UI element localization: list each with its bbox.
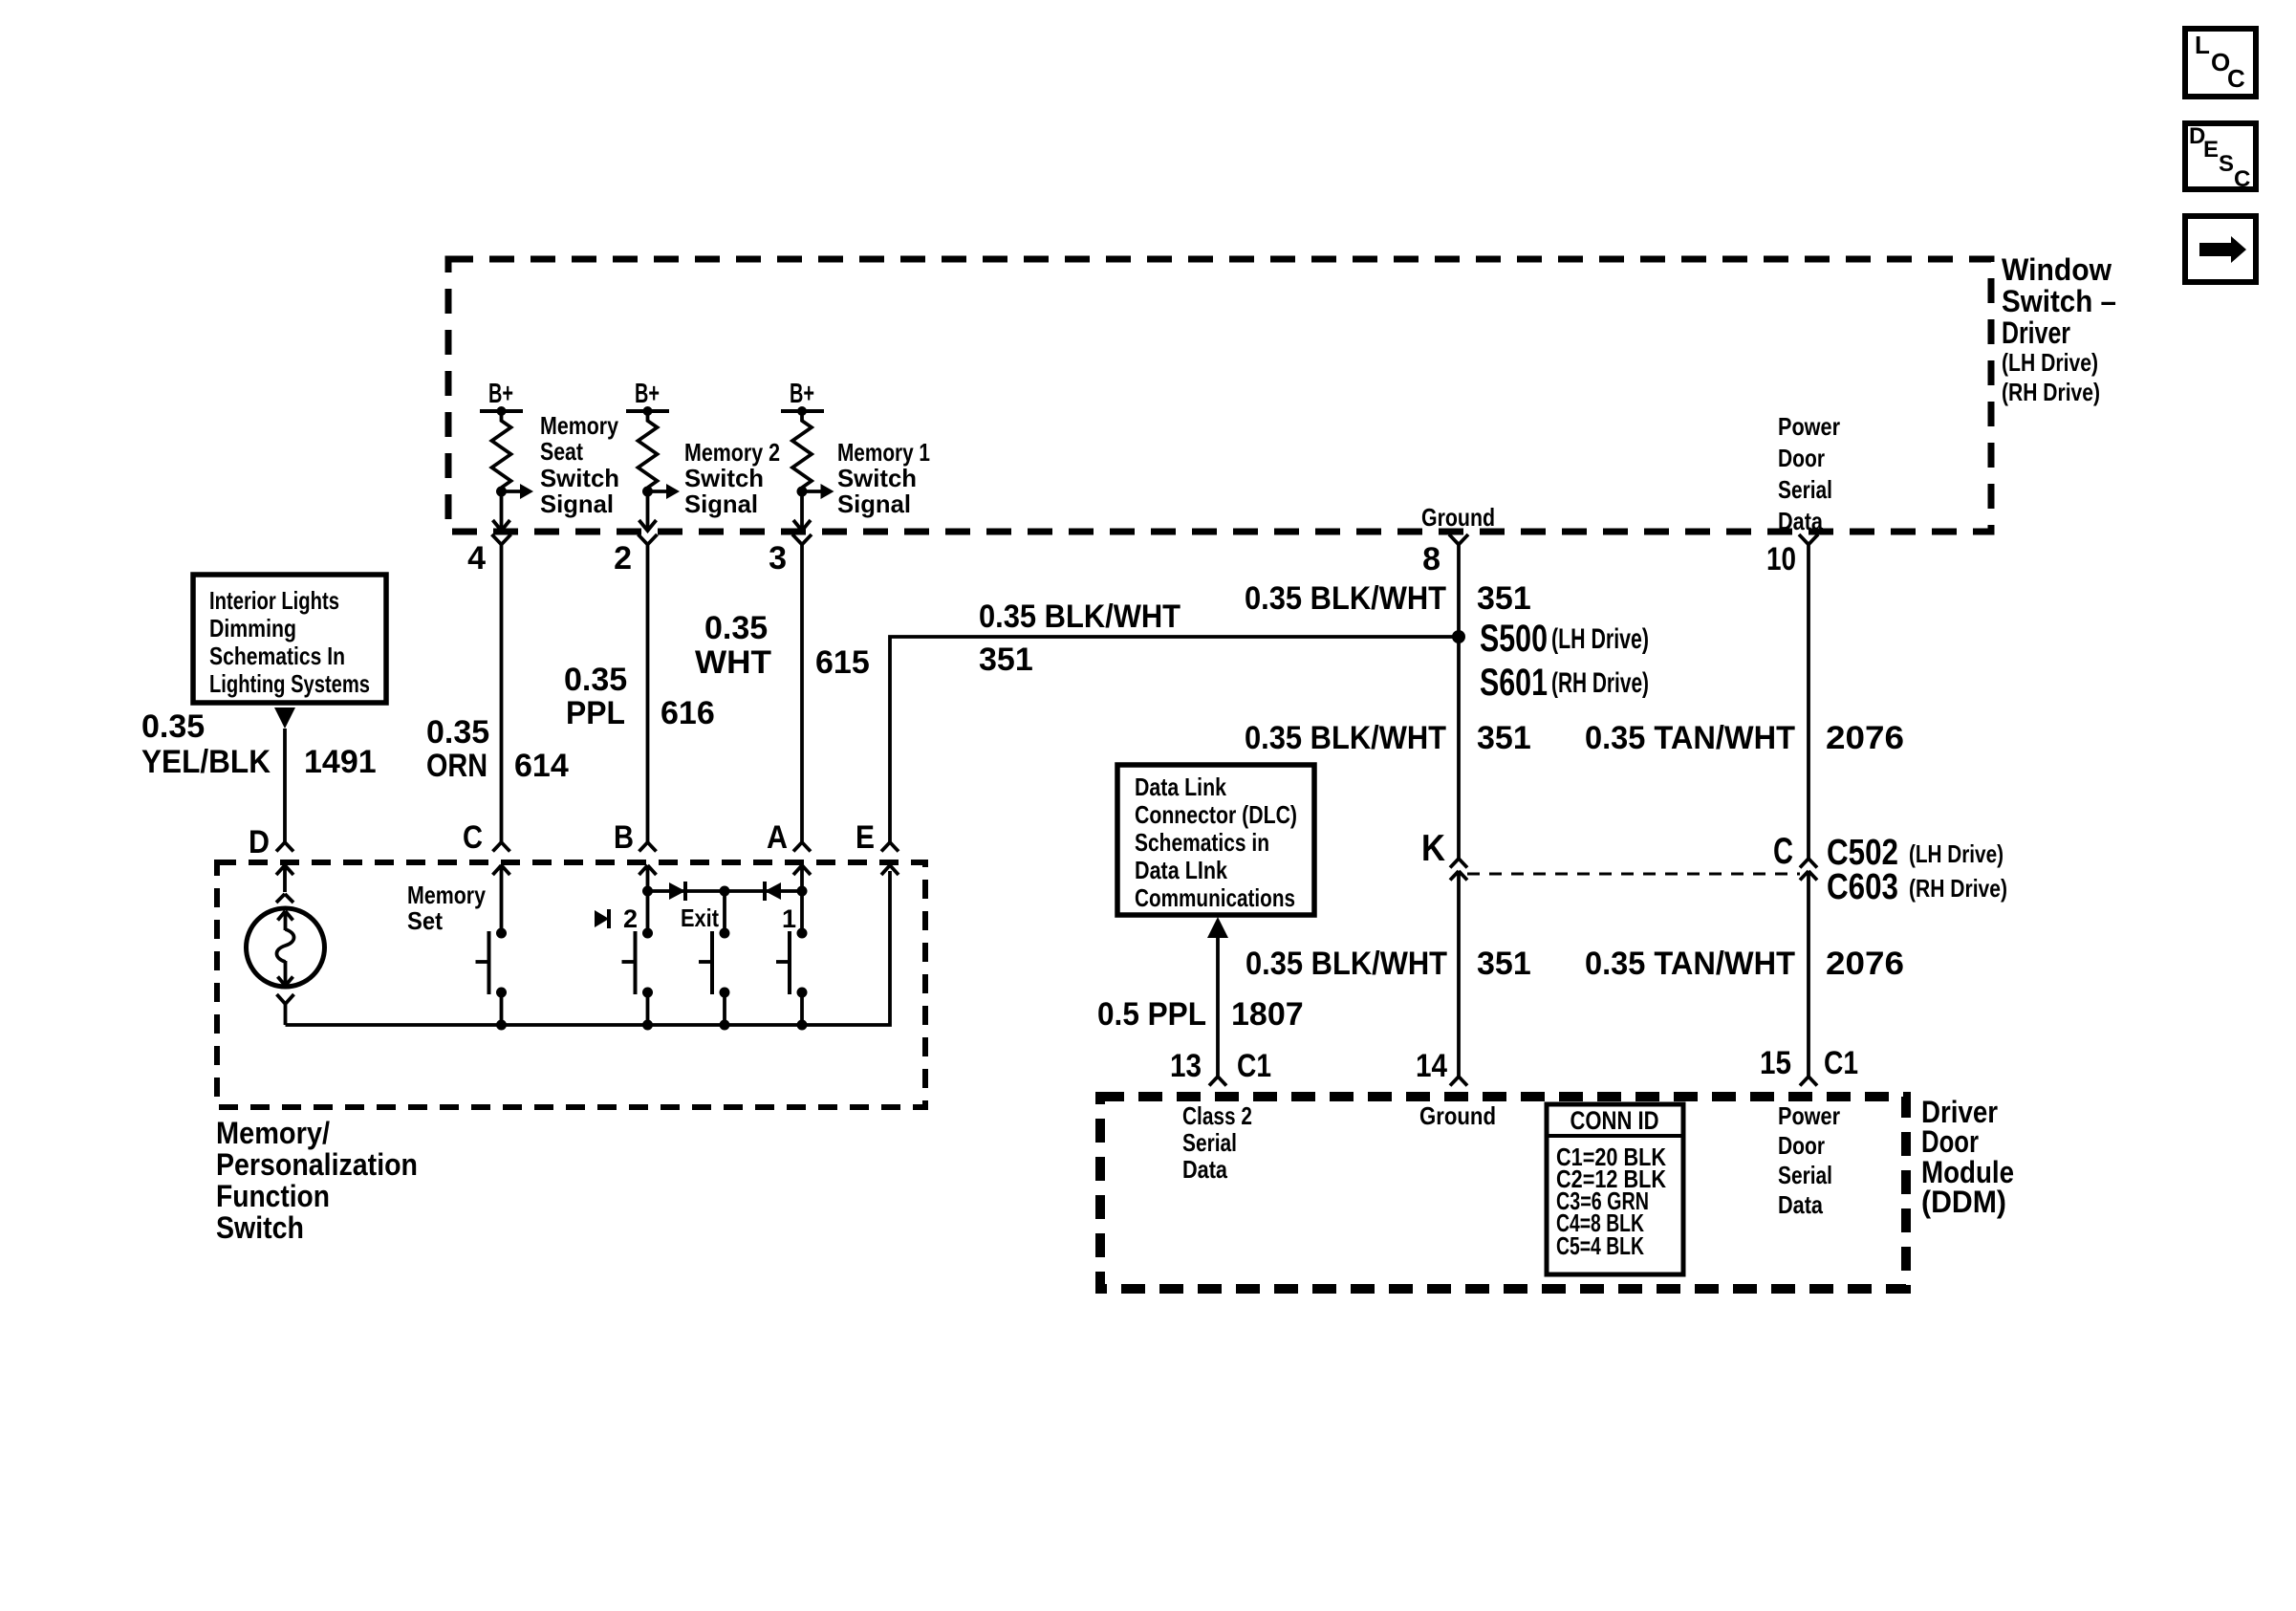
- svg-text:PPL: PPL: [566, 695, 625, 731]
- svg-text:K: K: [1421, 828, 1445, 869]
- svg-text:0.35: 0.35: [704, 610, 768, 646]
- svg-text:4: 4: [467, 540, 486, 577]
- label 0.35 TAN/WHT 2076 (lower): [1585, 946, 1904, 982]
- svg-text:Switch: Switch: [837, 464, 917, 492]
- reference arrow down: [274, 708, 295, 729]
- wire resistor2 to pin2: [646, 491, 650, 529]
- svg-text:Memory: Memory: [407, 881, 486, 909]
- switch memory 2: [622, 928, 654, 1026]
- svg-text:Connector (DLC): Connector (DLC): [1135, 800, 1297, 829]
- label Data Link Connector: [1135, 773, 1297, 912]
- svg-text:A: A: [767, 819, 788, 856]
- wire BLK/WHT horizontal to S500: [890, 637, 1459, 842]
- svg-text:Exit: Exit: [681, 903, 719, 932]
- switch exit: [699, 928, 730, 1026]
- arrowhead down at pin4: [493, 520, 510, 531]
- resistor 3 bottom node: [797, 487, 808, 497]
- svg-text:L: L: [2195, 31, 2210, 59]
- svg-text:C: C: [1773, 831, 1793, 872]
- svg-text:351: 351: [1477, 946, 1531, 982]
- connector link dashed line: [1467, 873, 1800, 876]
- svg-text:Door: Door: [1778, 444, 1825, 472]
- svg-text:Switch: Switch: [684, 464, 764, 492]
- label Memory Seat Switch Signal: [540, 411, 619, 518]
- bus node exit: [720, 1020, 730, 1031]
- svg-text:Power: Power: [1778, 412, 1840, 441]
- svg-text:Memory 1: Memory 1: [837, 438, 930, 467]
- svg-text:Set: Set: [407, 906, 443, 935]
- bus node C: [496, 1020, 507, 1031]
- connector fork E: [881, 842, 899, 852]
- svg-text:C603: C603: [1827, 867, 1898, 907]
- svg-text:Interior Lights: Interior Lights: [209, 586, 339, 615]
- svg-text:C5=4 BLK: C5=4 BLK: [1556, 1231, 1644, 1260]
- connector arrow E inside box: [881, 865, 899, 875]
- inline fork above lamp: [276, 894, 293, 903]
- svg-text:0.35 BLK/WHT: 0.35 BLK/WHT: [979, 599, 1180, 635]
- wire exit column: [723, 891, 726, 933]
- svg-text:1: 1: [782, 904, 796, 933]
- svg-text:CONN ID: CONN ID: [1570, 1106, 1659, 1135]
- svg-text:Schematics In: Schematics In: [209, 642, 345, 670]
- diode A to Exit: [765, 882, 781, 901]
- node dot 2: [643, 406, 653, 416]
- svg-text:C: C: [2227, 64, 2245, 93]
- svg-text:Lighting Systems: Lighting Systems: [209, 669, 370, 698]
- wire class 2 serial data: [1216, 938, 1220, 1077]
- B+ feed bar 1: [480, 409, 523, 413]
- icon LOC box: [2185, 29, 2256, 97]
- pin 14 connector: [1416, 1048, 1467, 1086]
- svg-text:10: 10: [1766, 541, 1796, 577]
- inline connector C502/C603: [1773, 831, 1817, 1077]
- resistor Memory 1 Switch: [792, 411, 812, 488]
- svg-text:Dimming: Dimming: [209, 614, 296, 642]
- wire resistor1 to pin4: [500, 491, 504, 529]
- label C502 C603: [1827, 833, 2007, 907]
- Window Switch - Driver dashed box: [448, 259, 1991, 532]
- bus node B: [642, 1020, 653, 1031]
- resistor 1 bottom node: [496, 487, 507, 497]
- svg-text:S500: S500: [1480, 618, 1548, 660]
- svg-text:3: 3: [769, 540, 787, 577]
- svg-text:Serial: Serial: [1778, 1161, 1832, 1189]
- pin 8 connector: [1422, 534, 1468, 577]
- bus node A: [797, 1020, 808, 1031]
- label 0.35 BLK/WHT 351 (above pin 14): [1245, 946, 1531, 982]
- connector arrow C inside box: [493, 865, 510, 933]
- svg-text:Function: Function: [216, 1179, 330, 1213]
- svg-text:Personalization: Personalization: [216, 1147, 418, 1182]
- connector fork D: [276, 842, 293, 852]
- svg-text:0.35 BLK/WHT: 0.35 BLK/WHT: [1245, 720, 1446, 756]
- svg-text:S: S: [2219, 151, 2234, 177]
- svg-text:614: 614: [514, 748, 569, 784]
- pin 2 connector: [614, 534, 657, 577]
- B+ feed bar 2: [626, 409, 669, 413]
- svg-text:(RH Drive): (RH Drive): [1551, 667, 1649, 699]
- Interior Lights box: [193, 575, 386, 703]
- splice S500: [1452, 630, 1465, 643]
- svg-text:Ground: Ground: [1419, 1101, 1496, 1130]
- diode row wire: [648, 889, 803, 893]
- label Power Door Serial Data (window switch): [1778, 412, 1840, 535]
- wire A column: [800, 545, 804, 843]
- svg-text:Window: Window: [2002, 252, 2112, 287]
- svg-text:351: 351: [979, 642, 1033, 678]
- svg-text:2076: 2076: [1826, 946, 1904, 982]
- node dot 1: [497, 406, 507, 416]
- connector fork A: [793, 842, 811, 852]
- connector arrow D inside box: [276, 865, 293, 892]
- svg-text:Memory/: Memory/: [216, 1116, 330, 1150]
- resistor Memory Seat Switch: [492, 411, 511, 488]
- svg-text:0.35: 0.35: [141, 708, 205, 745]
- arrowhead down at pin2: [639, 520, 657, 531]
- svg-text:(RH Drive): (RH Drive): [2002, 378, 2100, 406]
- svg-text:(LH Drive): (LH Drive): [1909, 839, 2004, 868]
- svg-text:ORN: ORN: [426, 748, 487, 784]
- svg-text:616: 616: [661, 695, 715, 731]
- label 0.35 YEL/BLK 1491: [141, 708, 377, 780]
- svg-text:B+: B+: [488, 379, 513, 409]
- Driver Door Module dashed box: [1100, 1097, 1906, 1289]
- svg-text:D: D: [249, 824, 270, 860]
- svg-text:E: E: [856, 819, 875, 856]
- pin 13 connector: [1170, 1048, 1271, 1086]
- wire D column: [283, 729, 287, 842]
- svg-text:Communications: Communications: [1135, 883, 1295, 912]
- diode glyph label 2: [595, 904, 638, 933]
- fork below lamp: [277, 994, 294, 1025]
- pin 4 connector: [467, 534, 510, 577]
- svg-text:14: 14: [1416, 1048, 1447, 1084]
- svg-text:Door: Door: [1921, 1124, 1979, 1159]
- svg-text:Switch –: Switch –: [2002, 284, 2116, 318]
- label Memory Set: [407, 881, 486, 935]
- label Class 2 Serial Data: [1182, 1101, 1252, 1184]
- Data Link Connector box: [1117, 765, 1314, 915]
- signal arrow right 3: [802, 484, 834, 499]
- label Power Door Serial Data (DDM): [1778, 1101, 1840, 1219]
- label S500 S601: [1480, 618, 1649, 704]
- diode row node B: [642, 886, 653, 897]
- pin 15 connector: [1760, 1045, 1858, 1086]
- svg-text:615: 615: [815, 644, 870, 681]
- svg-text:C: C: [2234, 166, 2250, 192]
- svg-text:Switch: Switch: [216, 1210, 304, 1245]
- label 0.35 TAN/WHT 2076 (upper): [1585, 720, 1904, 756]
- lamp (illumination): [247, 908, 325, 987]
- switch memory 1: [776, 928, 808, 1026]
- svg-text:B+: B+: [635, 379, 660, 409]
- diode B to Exit: [669, 882, 685, 901]
- svg-text:(RH Drive): (RH Drive): [1909, 874, 2007, 903]
- icon DESC box: [2185, 123, 2256, 192]
- svg-text:Data: Data: [1778, 507, 1823, 535]
- svg-text:0.35: 0.35: [564, 662, 627, 698]
- svg-text:Signal: Signal: [684, 490, 758, 518]
- arrowhead down at pin3: [793, 520, 811, 531]
- diode row middle node: [720, 886, 730, 897]
- svg-text:0.35 TAN/WHT: 0.35 TAN/WHT: [1585, 946, 1795, 982]
- wire C column: [500, 545, 504, 843]
- svg-text:Switch: Switch: [540, 464, 619, 492]
- svg-text:(LH Drive): (LH Drive): [1551, 623, 1649, 655]
- svg-text:0.5 PPL: 0.5 PPL: [1097, 996, 1206, 1033]
- label Memory 1 Switch Signal: [837, 438, 930, 518]
- svg-text:B: B: [614, 819, 634, 856]
- svg-text:Data: Data: [1778, 1190, 1823, 1219]
- CONN ID table: [1547, 1104, 1683, 1274]
- wire ground column pin8 to K: [1457, 545, 1461, 860]
- label Interior Lights Dimming: [209, 586, 370, 698]
- label 0.35 WHT 615: [695, 610, 870, 681]
- signal arrow right 2: [648, 484, 681, 499]
- svg-text:0.35: 0.35: [426, 714, 489, 751]
- svg-text:0.35 BLK/WHT: 0.35 BLK/WHT: [1245, 946, 1447, 982]
- label Window Switch - Driver: [2002, 252, 2116, 406]
- svg-text:YEL/BLK: YEL/BLK: [141, 744, 271, 780]
- svg-text:Schematics in: Schematics in: [1135, 828, 1269, 857]
- svg-text:Memory 2: Memory 2: [684, 438, 780, 467]
- svg-text:Serial: Serial: [1778, 475, 1832, 504]
- resistor 2 bottom node: [642, 487, 653, 497]
- svg-text:Data: Data: [1182, 1155, 1227, 1184]
- svg-text:E: E: [2203, 137, 2219, 163]
- svg-text:(DDM): (DDM): [1921, 1185, 2006, 1219]
- connector fork C: [493, 842, 510, 852]
- wire TAN column pin10 to C502: [1807, 545, 1810, 860]
- label 0.5 PPL 1807: [1097, 996, 1304, 1033]
- pin 3 connector: [769, 534, 812, 577]
- inline connector K: [1421, 828, 1467, 1077]
- svg-text:C1: C1: [1824, 1045, 1858, 1081]
- wire B column: [646, 545, 650, 843]
- signal arrow right 1: [502, 484, 534, 499]
- svg-text:C1: C1: [1237, 1048, 1271, 1084]
- svg-text:(LH Drive): (LH Drive): [2002, 348, 2098, 377]
- svg-text:Memory: Memory: [540, 411, 618, 440]
- svg-text:Power: Power: [1778, 1101, 1840, 1130]
- Memory/Personalization dashed box: [217, 862, 925, 1107]
- label 0.35 ORN 614: [426, 714, 569, 784]
- svg-text:Serial: Serial: [1182, 1128, 1237, 1157]
- label Memory/Personalization Function Switch: [216, 1116, 418, 1245]
- resistor Memory 2 Switch: [639, 411, 658, 488]
- B+ feed bar 3: [781, 409, 824, 413]
- svg-text:S601: S601: [1480, 662, 1548, 704]
- svg-text:B+: B+: [790, 379, 814, 409]
- connector arrow A inside box: [793, 865, 811, 933]
- svg-text:Signal: Signal: [540, 490, 614, 518]
- label Memory 2 Switch Signal: [684, 438, 780, 518]
- label 0.35 BLK/WHT 351 (horizontal run): [979, 599, 1180, 678]
- icon arrow box: [2185, 216, 2256, 282]
- svg-text:2: 2: [614, 540, 632, 577]
- svg-text:15: 15: [1760, 1045, 1791, 1081]
- svg-text:1807: 1807: [1231, 996, 1304, 1033]
- svg-text:Signal: Signal: [837, 490, 911, 518]
- diode row node A: [797, 886, 808, 897]
- bus wire: [286, 871, 891, 1025]
- connector fork B: [639, 842, 657, 852]
- label Driver Door Module: [1921, 1095, 2014, 1219]
- svg-text:1491: 1491: [304, 744, 377, 780]
- connector arrow B inside box: [639, 865, 657, 933]
- svg-text:Class 2: Class 2: [1182, 1101, 1252, 1130]
- svg-text:C: C: [463, 819, 483, 856]
- pin 10 connector: [1766, 534, 1818, 577]
- svg-text:Seat: Seat: [540, 437, 583, 466]
- svg-text:2: 2: [623, 904, 638, 933]
- label 0.35 PPL 616: [564, 662, 715, 731]
- svg-text:13: 13: [1170, 1048, 1202, 1084]
- svg-text:2076: 2076: [1826, 720, 1904, 756]
- svg-text:0.35 TAN/WHT: 0.35 TAN/WHT: [1585, 720, 1795, 756]
- svg-text:Door: Door: [1778, 1131, 1825, 1160]
- svg-text:Data LInk: Data LInk: [1135, 856, 1227, 884]
- svg-text:8: 8: [1422, 541, 1440, 577]
- svg-text:351: 351: [1477, 720, 1531, 756]
- svg-text:WHT: WHT: [695, 644, 771, 681]
- svg-text:Driver: Driver: [2002, 316, 2070, 350]
- switch Memory Set: [476, 928, 508, 1026]
- svg-text:Data Link: Data Link: [1135, 773, 1226, 801]
- label 0.35 BLK/WHT 351 (below S500): [1245, 720, 1531, 756]
- svg-text:351: 351: [1477, 580, 1531, 617]
- svg-text:Ground: Ground: [1421, 503, 1495, 532]
- wire resistor3 to pin3: [800, 491, 804, 529]
- reference arrow up: [1207, 917, 1228, 938]
- node dot 3: [797, 406, 807, 416]
- svg-text:0.35 BLK/WHT: 0.35 BLK/WHT: [1245, 580, 1446, 617]
- label 0.35 BLK/WHT 351 (pin 8 run): [1245, 580, 1531, 617]
